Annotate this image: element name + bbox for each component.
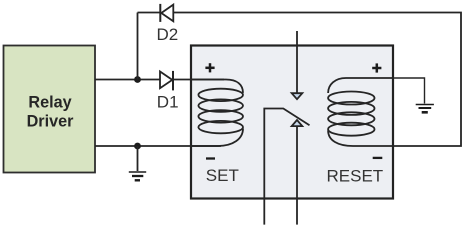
label + SET	[205, 63, 214, 72]
wire: top rail left segment to D2 cathode	[138, 12, 161, 14]
svg-text:Relay: Relay	[28, 93, 71, 111]
svg-text:Driver: Driver	[27, 113, 74, 131]
wire: D1 cathode into box to SET coil	[173, 79, 224, 81]
switch contact arrow down	[292, 93, 303, 99]
label + RESET	[372, 63, 381, 72]
label - SET	[206, 157, 215, 159]
wire: D2 anode along top and down right side to RESET coil minus	[174, 13, 462, 147]
ground left	[129, 172, 146, 180]
RESET coil L2	[328, 78, 393, 146]
node B junction dot bottom	[134, 143, 141, 150]
svg-text:RESET: RESET	[327, 166, 384, 185]
node A junction dot top	[134, 76, 141, 83]
wire: junction up to top rail	[137, 13, 139, 80]
relay body box K1	[191, 46, 393, 199]
switch common stem from top	[296, 31, 298, 93]
svg-text:SET: SET	[206, 166, 239, 185]
label - RESET	[373, 157, 383, 159]
ground right	[416, 105, 434, 113]
switch right leg wire	[296, 126, 298, 225]
wire: driver bottom pin to SET coil minus	[95, 145, 221, 147]
SET coil L1	[191, 80, 243, 147]
diode D1	[160, 71, 173, 91]
relay driver box U1	[4, 46, 96, 173]
wire: RESET coil plus to right ground	[393, 78, 425, 104]
wire: driver top pin to D1	[95, 79, 160, 81]
svg-text:D2: D2	[157, 25, 179, 44]
diode D2	[160, 4, 173, 22]
switch blade wire	[264, 109, 309, 225]
svg-text:D1: D1	[157, 93, 179, 112]
wire: junction down to ground	[137, 146, 139, 171]
switch contact arrow up	[292, 120, 303, 126]
